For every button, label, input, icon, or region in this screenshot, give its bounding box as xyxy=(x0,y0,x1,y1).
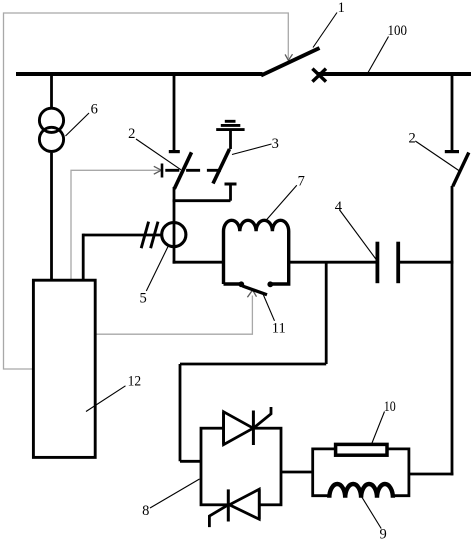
svg-text:5: 5 xyxy=(139,291,146,307)
arrowhead on gray path at contact 11 xyxy=(247,290,256,297)
svg-text:9: 9 xyxy=(379,527,386,541)
leader for label 5 xyxy=(146,246,168,292)
current transformer CT 5 xyxy=(162,223,186,247)
wire right branch vertical xyxy=(451,186,454,475)
wire switch 3 to switch 2 branch xyxy=(173,199,231,202)
leader for label 7 xyxy=(265,185,297,222)
thyristor Q1 triangle xyxy=(224,412,254,445)
leader for label 8 xyxy=(150,479,200,508)
wire switch 2 down through CT 5 xyxy=(173,187,176,264)
leader for label 2 right xyxy=(415,141,459,171)
wire bus left segment xyxy=(16,72,263,76)
svg-text:8: 8 xyxy=(142,503,149,519)
wire down-left path vertical xyxy=(179,364,182,461)
wire bus right segment line 100 xyxy=(319,72,472,76)
thyristor Q1 anode bar xyxy=(222,412,225,445)
leader for label 100 xyxy=(368,37,389,74)
arrowhead on gray path at switch 2 xyxy=(154,166,162,174)
switch 3 fixed contact bar xyxy=(225,183,237,186)
wire gray control path from unit 12 to switch 2 xyxy=(71,170,160,280)
thyristor Q1 gate xyxy=(253,407,271,428)
thyristor Q2 gate xyxy=(209,505,228,527)
svg-text:6: 6 xyxy=(91,101,98,117)
svg-text:2: 2 xyxy=(408,131,415,147)
breaker 1 blade on bus xyxy=(261,48,320,76)
node X fault mark on bus 100 xyxy=(312,69,326,82)
thyristor Q2 cathode bar xyxy=(227,489,230,521)
leader for label 12 xyxy=(86,386,126,412)
wire transformer 6 to unit 12 xyxy=(50,153,53,281)
switch 2 blade xyxy=(174,152,191,189)
wire drop from bus to right switch 2 xyxy=(451,74,454,150)
CT 5 hatch marks xyxy=(141,222,158,249)
wire switch 3 contact down xyxy=(229,184,232,201)
wire relay 7 to capacitor 4 xyxy=(288,261,377,264)
wire drop from bus to transformer 6 xyxy=(50,74,53,109)
capacitor 4 xyxy=(377,242,398,284)
svg-text:1: 1 xyxy=(338,0,345,16)
svg-text:10: 10 xyxy=(384,399,396,415)
wire down-left path horizontal xyxy=(180,363,326,366)
wire stub into thyristor block 8 xyxy=(180,460,202,463)
leader for label 2 left xyxy=(136,139,181,170)
wire thyristor block 8 to damper block xyxy=(281,471,314,474)
thyristor block 8 box xyxy=(201,428,281,505)
wire ground to switch 3 blade xyxy=(229,130,232,149)
svg-text:100: 100 xyxy=(387,23,407,39)
resistor 10 xyxy=(336,444,387,455)
svg-text:11: 11 xyxy=(272,321,286,337)
contact 11 blade xyxy=(243,286,268,295)
contact 11 left pivot dot xyxy=(238,281,244,287)
switch 2 linkage tick xyxy=(161,164,164,178)
transformer 6 xyxy=(39,108,63,151)
svg-text:7: 7 xyxy=(298,173,305,189)
inductor 9 xyxy=(329,484,393,498)
wire drop from bus to switch 2 xyxy=(173,74,176,151)
wire capacitor 4 to switch 2 right branch xyxy=(398,261,453,264)
leader for label 3 xyxy=(232,144,272,155)
damper block box for R10 L9 xyxy=(313,449,409,496)
wire CT branch down to unit 12 xyxy=(82,234,85,281)
switch 3 blade xyxy=(213,149,230,184)
arrowhead on gray path at breaker 1 xyxy=(285,54,292,60)
svg-text:12: 12 xyxy=(128,373,142,389)
relay coil 7 with contact frame xyxy=(224,220,289,284)
right switch 2 blade xyxy=(453,153,469,187)
thyristor Q1 cathode bar xyxy=(252,411,255,446)
leader for label 1 xyxy=(313,13,337,48)
leader for label 4 xyxy=(340,211,376,260)
wire damper block to right branch xyxy=(409,473,454,476)
thyristor Q2 anode bar xyxy=(258,489,261,519)
right switch 2 fixed contact bar xyxy=(445,150,459,153)
thyristor Q2 triangle xyxy=(229,489,259,519)
wire gray control path from unit 12 to contact 11 xyxy=(96,296,252,335)
wire CT branch horizontal xyxy=(83,234,161,237)
unit 12 control box xyxy=(33,280,95,457)
wire to relay coil 7 xyxy=(173,261,224,264)
ground symbol for switch 3 xyxy=(216,121,244,129)
wire gray control path from unit 12 to breaker 1 xyxy=(4,13,289,369)
switch 2 fixed contact bar xyxy=(169,150,180,153)
leader for label 11 xyxy=(263,294,275,321)
svg-text:3: 3 xyxy=(272,136,279,152)
switch 2-3 mechanical link dashed xyxy=(165,169,221,172)
leader for label 9 xyxy=(362,497,381,528)
leader for label 10 xyxy=(372,412,385,444)
contact 11 right pivot dot xyxy=(267,281,273,287)
node junction on capacitor wire xyxy=(325,262,328,364)
leader for label 6 xyxy=(66,113,90,136)
svg-text:2: 2 xyxy=(128,126,135,142)
